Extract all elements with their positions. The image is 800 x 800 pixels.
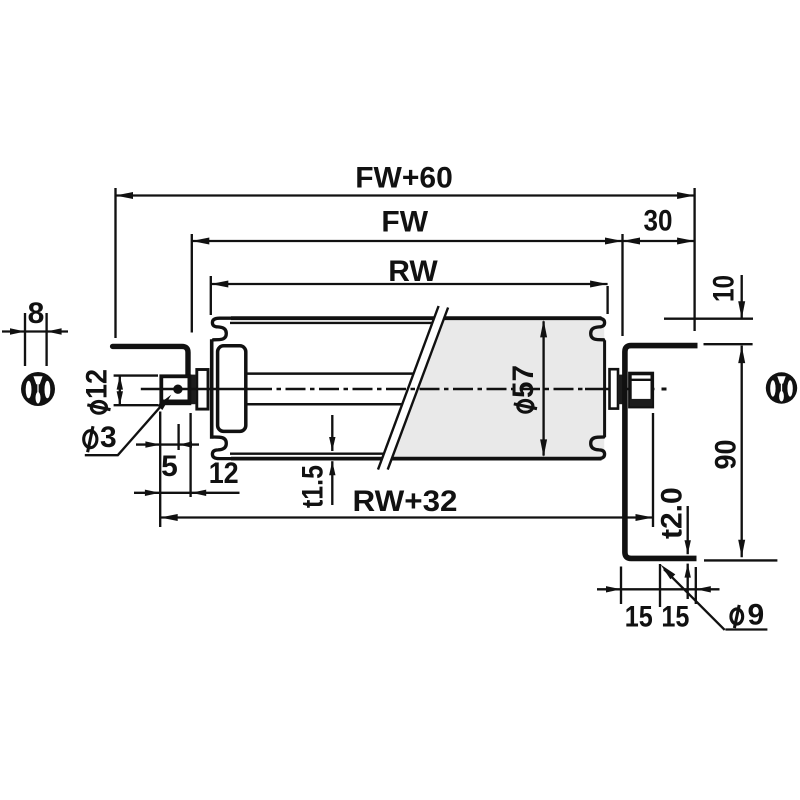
dimension 10 (roller above frame): [664, 318, 753, 320]
roller tube inner wall line bottom: [230, 453, 384, 455]
svg-text:15: 15: [661, 601, 689, 634]
centerline dash right of block: [662, 388, 667, 391]
left frame top flange and web: [113, 346, 188, 375]
spring pin end view (left): [21, 372, 55, 406]
right frame channel: top flange, web, bottom flange: [625, 346, 698, 559]
frame hole dark band (right): [618, 375, 623, 405]
break line 1: [378, 306, 439, 470]
tube left end curl bottom: [212, 437, 232, 459]
dimension t1.5 (tube wall): [331, 415, 333, 451]
dimension 15 15 (bolt hole position): [620, 567, 622, 605]
svg-text:RW: RW: [388, 255, 438, 288]
svg-text:RW+32: RW+32: [353, 485, 458, 518]
svg-text:12: 12: [81, 369, 114, 399]
bearing housing cap (left): [218, 346, 246, 432]
label phi12 rotated: [81, 369, 114, 413]
roller tube bottom surface line (right of break): [392, 457, 602, 461]
shaft end block (left) with spring pin hole: [161, 376, 189, 403]
svg-text:30: 30: [644, 205, 673, 238]
svg-text:t2.0: t2.0: [656, 487, 689, 539]
svg-text:FW+60: FW+60: [355, 162, 453, 195]
tube right end wall line: [603, 340, 606, 437]
spring pin hole dot: [173, 385, 182, 394]
dimension phi57: [542, 321, 544, 455]
shaft end block (right) with retaining spring: [630, 374, 652, 407]
leader phi3 (spring pin): [118, 400, 167, 455]
label t2.0: [656, 487, 689, 539]
dimension RW+32: [652, 413, 654, 527]
collar washer (right): [610, 369, 619, 408]
svg-text:57: 57: [507, 365, 540, 398]
dimension 30: [623, 240, 695, 242]
svg-text:10: 10: [708, 275, 741, 302]
svg-text:t1.5: t1.5: [297, 465, 330, 508]
label phi3: [84, 431, 97, 448]
dimension 5 (pin hole offset): [136, 443, 199, 445]
break line 2: [388, 308, 448, 470]
extension lines left shaft dims: [159, 412, 161, 528]
shaft bottom line phi12: [247, 403, 402, 406]
dimension phi12: [114, 374, 158, 376]
label phi57: [507, 365, 540, 412]
shaft top line phi12: [247, 372, 413, 375]
tube right end curl bottom: [585, 437, 605, 459]
spring pin end view (right): [766, 372, 797, 403]
tube right end curl top: [585, 318, 605, 340]
svg-text:15: 15: [625, 601, 653, 634]
centerline solid through right shaft: [585, 388, 655, 391]
roller tube bottom surface line (left of break): [231, 457, 382, 461]
roller tube inner wall line top: [230, 322, 432, 324]
dimension FW: [191, 234, 193, 333]
dimension FW+60: [114, 188, 116, 338]
leader phi9 (frame bolt hole): [725, 628, 767, 630]
roller tube top surface line (right of break): [444, 316, 601, 320]
svg-text:FW: FW: [381, 206, 428, 239]
label phi9: [731, 609, 743, 624]
label t1.5: [297, 465, 330, 508]
svg-text:9: 9: [748, 599, 765, 632]
dimension 12 (shaft protrusion): [134, 492, 240, 494]
dark band bottom of right block: [630, 399, 652, 407]
dimension t2.0 (frame wall): [687, 506, 689, 554]
centerline solid through left shaft: [141, 388, 252, 391]
tube left end curl top: [212, 318, 232, 340]
svg-text:90: 90: [710, 440, 743, 470]
svg-text:12: 12: [209, 457, 239, 490]
bearing cap flange plate (left, vertical): [210, 339, 214, 439]
svg-text:3: 3: [100, 421, 117, 454]
gray exterior surface of roller tube (right of break): [392, 320, 604, 458]
dimension 90 (frame height): [704, 343, 753, 345]
collar washer (left): [197, 370, 208, 410]
dimension RW: [210, 276, 212, 315]
svg-text:5: 5: [161, 450, 178, 483]
roller tube top surface line (left of break): [231, 316, 434, 320]
svg-text:8: 8: [28, 297, 45, 330]
centerline dash-dot through tube: [252, 388, 585, 391]
dimension 8 (pin length across): [2, 330, 68, 332]
frame hole dark band (left): [191, 375, 196, 405]
